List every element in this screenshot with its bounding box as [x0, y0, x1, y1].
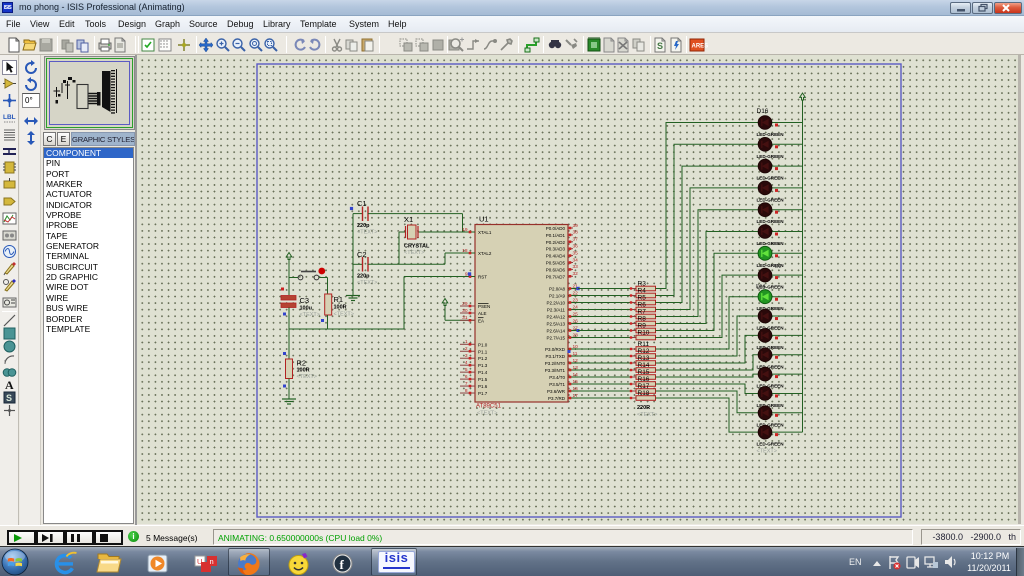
svg-text:ARES: ARES — [692, 44, 709, 50]
svg-text:n: n — [210, 557, 214, 566]
svg-text:LBL: LBL — [3, 114, 16, 121]
svg-text:S: S — [657, 41, 663, 51]
svg-text:U: U — [197, 557, 202, 566]
svg-text:f: f — [340, 557, 345, 572]
svg-text:S: S — [6, 393, 12, 403]
